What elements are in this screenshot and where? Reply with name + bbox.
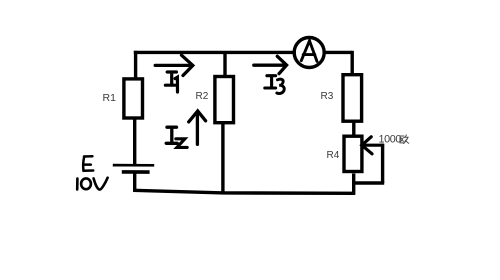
rheostat R4: [344, 136, 362, 171]
svg-text:R1: R1: [103, 92, 117, 104]
label ohm character (drawn): [400, 135, 409, 144]
wire R2 top stem: [223, 51, 226, 77]
svg-text:R4: R4: [327, 150, 340, 161]
current arrow I3: [254, 56, 287, 73]
label E (handwritten): [83, 156, 93, 171]
svg-text:R3: R3: [321, 91, 334, 102]
wire top horizontal left section: [134, 51, 293, 54]
label I3 (handwritten): [265, 76, 284, 94]
wire bottom horizontal: [133, 190, 355, 193]
label I1 (handwritten): [165, 72, 177, 92]
current arrow I1: [155, 55, 193, 75]
label 10V (handwritten): [77, 178, 107, 190]
rheostat wiper arrow: [362, 137, 383, 154]
resistor R1: [124, 79, 143, 118]
wire R4 bottom stem: [352, 174, 355, 195]
wire R2 bottom stem: [221, 124, 224, 193]
wire top-left corner vertical down to R1: [134, 51, 137, 78]
wire ammeter right to corner: [324, 51, 353, 54]
wire wiper loop bottom horizontal: [355, 181, 384, 184]
svg-text:R2: R2: [196, 91, 209, 102]
battery E short plate: [122, 170, 150, 174]
wire wiper loop right vertical: [381, 144, 384, 183]
wire R3 to R4 stem: [352, 123, 355, 136]
ammeter letter A: [301, 41, 317, 62]
battery E long plate: [113, 164, 154, 167]
resistor R2: [215, 77, 234, 123]
svg-text:1000: 1000: [379, 134, 402, 146]
resistor R3: [343, 75, 362, 122]
wire R1 bottom to battery: [133, 119, 136, 164]
current arrow I2: [189, 111, 206, 144]
wire battery bottom to bottom-left corner: [133, 172, 136, 192]
label I2 (handwritten): [166, 127, 187, 147]
wire top-right corner vertical down to R3: [351, 51, 354, 74]
ammeter U1 circle: [294, 38, 324, 68]
